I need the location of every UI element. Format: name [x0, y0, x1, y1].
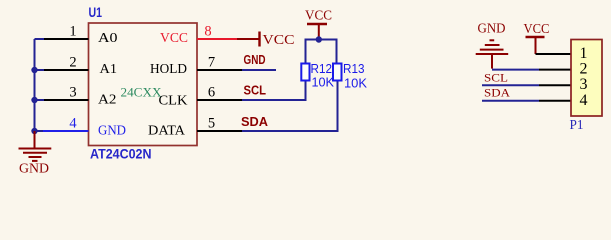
svg-text:A2: A2 [98, 93, 117, 108]
svg-text:SDA: SDA [484, 86, 510, 100]
svg-text:AT24C02N: AT24C02N [90, 146, 152, 162]
svg-text:24CXX: 24CXX [121, 85, 163, 100]
svg-text:A0: A0 [98, 31, 118, 46]
svg-text:VCC: VCC [263, 32, 295, 47]
pin 5 (DATA) [148, 116, 242, 138]
svg-text:8: 8 [204, 24, 211, 40]
svg-text:VCC: VCC [305, 8, 332, 23]
svg-text:GND: GND [478, 21, 506, 36]
pin 4 (GND) [42, 116, 126, 139]
connector P1 body [571, 40, 602, 117]
svg-text:VCC: VCC [160, 30, 188, 45]
svg-text:GND: GND [98, 124, 126, 139]
wire pin1 stub [35, 38, 45, 40]
svg-text:4: 4 [580, 92, 588, 109]
svg-text:2: 2 [69, 55, 76, 71]
svg-text:HOLD: HOLD [150, 61, 187, 76]
pin 1 (A0) [43, 24, 118, 47]
svg-text:SDA: SDA [241, 114, 269, 129]
svg-text:DATA: DATA [148, 123, 185, 138]
svg-text:1: 1 [580, 45, 588, 62]
svg-text:3: 3 [69, 85, 76, 101]
wire left vertical bus [34, 39, 36, 131]
svg-text:VCC: VCC [524, 21, 550, 36]
junction node pin2 [31, 67, 37, 73]
svg-text:4: 4 [69, 116, 77, 132]
connector P1 pin 2 wire (GND) [492, 69, 571, 71]
connector P1 pin 4 wire / net label SDA [482, 86, 571, 101]
svg-text:SCL: SCL [484, 71, 508, 85]
VCC power bar at pin 8 [237, 32, 295, 48]
pin 6 (CLK) [159, 85, 243, 108]
wire resistor top rail [306, 40, 337, 64]
wire pin3 stub [35, 99, 45, 101]
connector P1 pin 1 wire [536, 53, 572, 55]
svg-text:10K: 10K [344, 76, 367, 91]
ground symbol bottom-left [19, 131, 52, 176]
net label SCL / wire pin6 to R12 [242, 81, 306, 101]
net label GND on pin 7 [242, 52, 276, 70]
svg-text:CLK: CLK [159, 93, 188, 108]
svg-text:10K: 10K [312, 75, 335, 90]
junction node VCC/resistor rail [316, 36, 322, 42]
svg-text:R13: R13 [343, 61, 365, 76]
svg-text:6: 6 [208, 85, 215, 101]
svg-text:U1: U1 [89, 4, 103, 20]
wire pin2 stub [35, 69, 45, 71]
resistor R12 [301, 61, 334, 90]
junction node pin4/GND [31, 128, 37, 134]
wire pin4 stub [35, 130, 44, 132]
pin 2 (A1) [43, 55, 117, 78]
ground symbol right (inverted) [476, 21, 509, 69]
svg-text:2: 2 [580, 61, 588, 78]
svg-text:GND: GND [244, 52, 266, 67]
svg-text:1: 1 [69, 24, 76, 40]
connector P1 pin 3 wire / net label SCL [482, 71, 571, 86]
junction node pin3 [31, 97, 37, 103]
pin 3 (A2) [43, 85, 117, 108]
op-amp U1 body (EEPROM AT24C02N) [89, 23, 198, 146]
resistor R13 [333, 61, 367, 91]
VCC power symbol above resistors [305, 8, 332, 40]
svg-text:SCL: SCL [244, 83, 267, 98]
net label SDA / wire pin5 to R13 [241, 81, 338, 132]
VCC power bar right [524, 21, 550, 54]
pin 8 (VCC) [160, 24, 237, 46]
svg-text:3: 3 [580, 76, 588, 93]
svg-text:7: 7 [208, 55, 215, 71]
svg-text:5: 5 [208, 116, 215, 132]
svg-text:A1: A1 [100, 62, 118, 77]
svg-text:GND: GND [19, 161, 49, 176]
svg-text:P1: P1 [570, 118, 584, 133]
pin 7 (HOLD) [150, 55, 242, 77]
